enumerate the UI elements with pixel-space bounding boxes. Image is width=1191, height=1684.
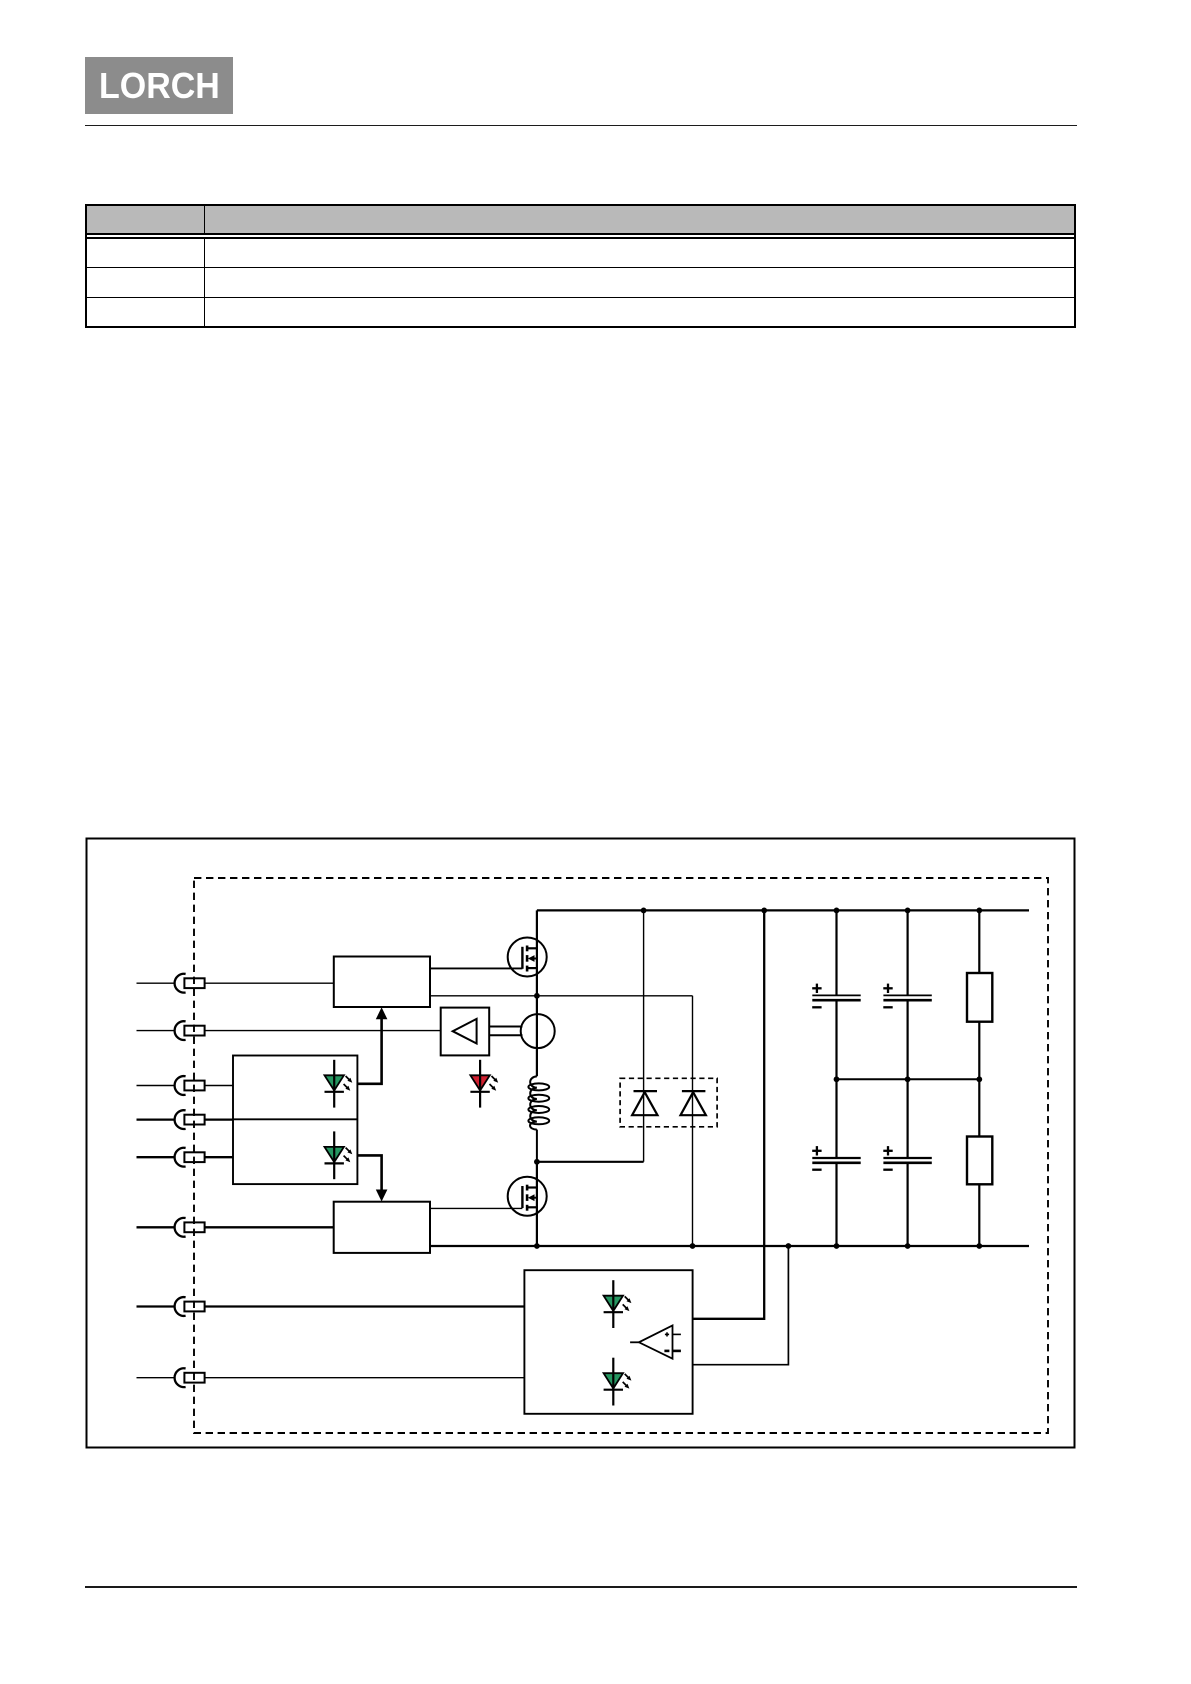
connector 3 <box>175 1076 205 1095</box>
C1 minus mark <box>812 1006 821 1008</box>
wire connector 2 to amplifier <box>137 1030 441 1032</box>
C4 plus mark <box>883 1146 892 1155</box>
comparator plus mark <box>665 1332 669 1336</box>
outer top border <box>85 204 1076 206</box>
enclosure outer box <box>87 839 1075 1448</box>
transistor Q1 drain/source vertical <box>536 910 538 1076</box>
node dot R2 bottom <box>976 1243 982 1249</box>
gate wire driver 2 to Q2 <box>430 1207 522 1209</box>
wire phase node <box>537 1161 644 1163</box>
wire connector 3 to LED box 1 <box>137 1085 234 1087</box>
node dot bottom rail-monitor <box>786 1243 792 1249</box>
freewheel diode dashed box <box>620 1078 717 1127</box>
amplifier triangle <box>453 1019 477 1044</box>
resistor R1 <box>967 910 992 1079</box>
wire diode D5 top <box>692 996 694 1246</box>
wire connector 8 to monitor box <box>137 1377 525 1379</box>
current transducer T1 <box>521 1014 555 1048</box>
connector 7 <box>175 1297 205 1316</box>
connector 6 <box>175 1218 205 1237</box>
transistor Q2 drain/source vertical <box>536 1162 538 1246</box>
comparator minus mark <box>664 1350 669 1353</box>
capacitor C4 <box>883 1079 931 1246</box>
node dot C1 bottom <box>834 1076 840 1082</box>
outer bottom border <box>85 326 1076 328</box>
table <box>85 204 1076 328</box>
C2 minus mark <box>883 1006 892 1008</box>
outer left border <box>85 204 87 327</box>
node dot phase lower <box>534 1159 540 1165</box>
LED D3 red <box>470 1060 498 1108</box>
node dot C3 bottom <box>834 1243 840 1249</box>
connector 2 <box>175 1021 205 1040</box>
node dot rail-monitor <box>761 908 767 914</box>
node dot C2 bottom <box>905 1076 911 1082</box>
diode D4 <box>632 1091 657 1115</box>
LED D2 green <box>325 1131 353 1179</box>
wire amplifier to transducer <box>489 1027 522 1036</box>
LED D7 green <box>604 1358 632 1406</box>
wire connector 7 to monitor box <box>137 1305 525 1307</box>
connector 8 <box>175 1368 205 1387</box>
monitor box U2 <box>524 1270 692 1414</box>
connector 5 <box>175 1148 205 1167</box>
gate wire driver 1 to Q1 <box>430 967 522 969</box>
connector 1 <box>175 974 205 993</box>
LORCH logo <box>85 57 233 113</box>
wire middle rail <box>837 1078 980 1080</box>
node dot R1 top <box>976 908 982 914</box>
amplifier box U1 <box>441 1008 490 1056</box>
wire bottom rail <box>430 1245 1029 1247</box>
header double rule upper <box>85 233 1076 235</box>
C3 minus mark <box>812 1169 821 1171</box>
column divider body <box>204 239 205 327</box>
capacitor C1 <box>812 910 860 1079</box>
LED D1 green <box>325 1060 353 1108</box>
transistor Q1 <box>508 938 547 977</box>
node dot D5 on bottom rail <box>690 1243 696 1249</box>
LED box divider <box>233 1118 357 1120</box>
wire top rail to monitor <box>693 910 765 1318</box>
C2 plus mark <box>883 984 892 993</box>
control arrow up to driver 1 <box>357 1007 387 1084</box>
wire top rail <box>537 909 1029 911</box>
comparator U3 <box>630 1326 681 1359</box>
C4 minus mark <box>883 1169 892 1171</box>
bottom rule <box>85 1586 1077 1588</box>
wire connector 4 to LED box divider <box>137 1118 234 1120</box>
column divider header <box>204 204 205 233</box>
outer right border <box>1074 204 1076 327</box>
transistor Q2 <box>508 1177 547 1216</box>
wire connector 1 to driver 1 <box>137 982 334 984</box>
node dot phase upper <box>534 993 540 999</box>
resistor R2 <box>967 1079 992 1246</box>
driver block 1 <box>334 957 430 1008</box>
wire top rail to diode D4 <box>643 910 645 1161</box>
diode D5 <box>681 1091 706 1115</box>
header rule <box>85 125 1078 127</box>
LED D6 green <box>604 1280 632 1328</box>
header double rule lower <box>85 237 1076 239</box>
node dot C2 top <box>905 908 911 914</box>
node dot C1 top <box>834 908 840 914</box>
C1 plus mark <box>812 984 821 993</box>
row divider 1 <box>85 267 1076 268</box>
node wire driver 1 to diode D2 <box>430 995 693 997</box>
wire bottom rail to monitor <box>693 1246 789 1365</box>
wire connector 6 to driver 2 <box>137 1226 334 1228</box>
C3 plus mark <box>812 1146 821 1155</box>
dashed machine boundary <box>194 878 1048 1433</box>
header fill <box>85 204 1076 234</box>
connector 4 <box>175 1110 205 1129</box>
driver block 2 <box>334 1202 430 1253</box>
LED box 1 and 2 <box>233 1056 357 1185</box>
wire connector 5 to LED box 2 <box>137 1156 234 1158</box>
node dot C4 bottom <box>905 1243 911 1249</box>
capacitor C3 <box>812 1079 860 1246</box>
capacitor C2 <box>883 910 931 1079</box>
row divider 2 <box>85 297 1076 298</box>
node dot rail-D4 <box>641 908 647 914</box>
node dot Q2 source on bottom rail <box>534 1243 540 1249</box>
inductor L1 <box>528 1076 549 1161</box>
node dot R1 bottom <box>976 1076 982 1082</box>
control arrow down to driver 2 <box>357 1155 387 1201</box>
